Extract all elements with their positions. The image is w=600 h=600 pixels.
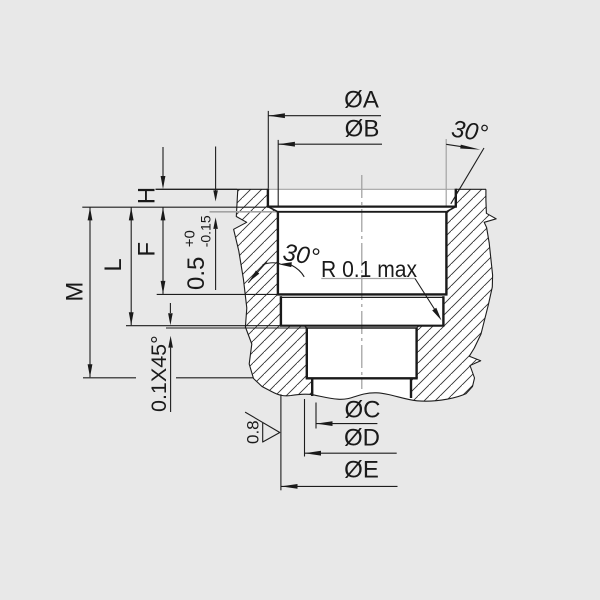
seat angle arrow to OB wall [279,262,292,267]
extension line chamfer bottom [166,327,307,329]
svg-text:0.1X45°: 0.1X45° [147,335,171,412]
extension line seat level [82,206,266,208]
extension line OE left wall [280,394,282,490]
dimension line OE [281,485,398,487]
bore OE wall right [442,296,444,326]
housing cross-section (hatched body) [220,185,510,410]
top surface right segment [456,188,486,190]
svg-text:+0: +0 [182,230,199,247]
extension line L bottom (OE ledge) [126,325,281,327]
OE bottom ledge [280,325,445,327]
extension line OD left wall [304,399,306,457]
chamfer bevels at OE bottom [304,326,306,328]
surface finish symbol 0.8 [245,412,280,442]
top surface left segment [156,188,268,190]
dimension M [89,207,91,377]
dimension line OB [278,143,382,145]
bore OE wall left [280,296,282,326]
30deg angle arrow [446,144,470,148]
bore OC wall right [410,378,412,398]
seat angle arrow on construction line [249,271,259,282]
seat angle construction line [248,262,267,283]
chamfer circle below OE [307,327,417,329]
mouth wall OA left [267,189,269,207]
svg-text:0.8: 0.8 [244,420,263,444]
extension line F bottom [157,293,278,295]
bore OB wall right [445,212,447,295]
dimension line OC [316,423,377,425]
seat cone left [268,207,278,212]
bore OD wall right [415,328,417,378]
seat cone right [446,207,455,212]
extension line OC left wall [315,403,317,429]
svg-text:ØC: ØC [345,397,381,424]
svg-text:ØE: ØE [344,457,379,484]
svg-text:30°: 30° [450,115,490,147]
svg-text:H: H [134,187,161,204]
dimension line OA [268,115,381,117]
svg-text:L: L [100,258,127,271]
seat ledge [267,205,457,207]
dimension 0.5 +0/-0.15 [215,147,217,191]
svg-text:30°: 30° [281,239,321,271]
svg-text:ØB: ØB [345,115,380,142]
svg-text:F: F [134,242,161,257]
break-line boundary of housing [234,189,497,401]
extension line top surface (H) [156,188,238,190]
extension line M bottom seg2 [176,377,253,379]
gray extension of OB wall above part (30 deg datum) [445,139,447,206]
extension line M bottom (OD ledge) seg1 [83,377,136,379]
dimension line OD [305,452,397,454]
dimension L [130,207,132,325]
svg-text:ØD: ØD [344,425,380,452]
bore OC wall left [311,378,313,396]
chamfer circle below OB [281,296,444,298]
mouth wall OA right [455,189,457,207]
seat inner circle [278,211,447,213]
dimension 0.1X45 chamfer [169,303,171,313]
dimension F [162,207,164,294]
30deg chamfer construction line [451,148,484,204]
extension line OB left [277,140,279,206]
svg-text:ØA: ØA [344,87,379,114]
gray extension line for 0.5 dim [210,211,278,213]
svg-text:0.5: 0.5 [183,257,210,290]
OB bottom ledge [277,293,448,295]
bore OB wall left [277,212,279,295]
bore cavity [268,188,456,404]
dimension H [162,147,164,177]
gray top-surface line across mouth [268,188,456,190]
extension line OA left [267,111,269,189]
centerline [361,175,363,389]
bore OD wall left [306,328,308,378]
OD bottom ledge [306,377,418,379]
svg-text:-0.15: -0.15 [197,215,213,247]
svg-text:M: M [62,282,89,302]
seat angle arc [263,263,281,265]
